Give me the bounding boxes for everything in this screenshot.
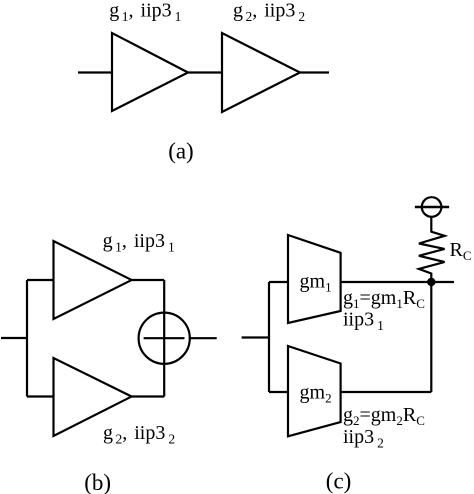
wire: (a) output bbox=[300, 71, 329, 73]
transconductor gm1 body bbox=[288, 235, 341, 323]
summer S1 plus horizontal bbox=[144, 337, 185, 339]
transconductor gm2 body bbox=[288, 346, 341, 436]
node: RC bottom junction dot bbox=[427, 278, 435, 286]
svg-text:(c): (c) bbox=[326, 469, 352, 494]
wire: (b) right vertical through summer bbox=[163, 280, 165, 397]
amplifier A1 (a) bbox=[112, 33, 188, 111]
wire: (b) bottom branch bbox=[27, 395, 54, 397]
wire: right vertical rail bbox=[430, 282, 432, 392]
wire: (b) input bbox=[1, 337, 27, 339]
wire: (c) left vertical split bbox=[268, 282, 270, 392]
wire: A3 output horizontal bbox=[132, 279, 165, 281]
wire: (c) input stub bbox=[242, 336, 269, 338]
svg-text:(b): (b) bbox=[84, 470, 111, 494]
wire: (b) output bbox=[190, 337, 217, 339]
wire: A1 to A2 bbox=[188, 71, 222, 73]
resistor RC zigzag bbox=[419, 217, 445, 282]
wire: gm2 output to rail bbox=[341, 391, 432, 393]
wire: (a) input bbox=[78, 71, 112, 73]
amplifier A4 (b bottom) bbox=[54, 358, 132, 436]
supply source bar bbox=[415, 206, 449, 209]
supply source circle bbox=[422, 197, 442, 217]
wire: (b) left vertical split bbox=[26, 280, 28, 397]
amplifier A2 (a) bbox=[222, 33, 300, 112]
wire: gm1 output to node and right stub bbox=[341, 281, 454, 283]
wire: (b) top branch bbox=[27, 279, 54, 281]
amplifier A3 (b top) bbox=[54, 241, 132, 319]
wire: (c) bottom branch bbox=[269, 391, 288, 393]
svg-text:(a): (a) bbox=[168, 139, 194, 164]
summer S1 circle bbox=[139, 313, 190, 364]
wire: A4 output horizontal bbox=[132, 395, 165, 397]
wire: (c) top branch bbox=[269, 281, 288, 283]
